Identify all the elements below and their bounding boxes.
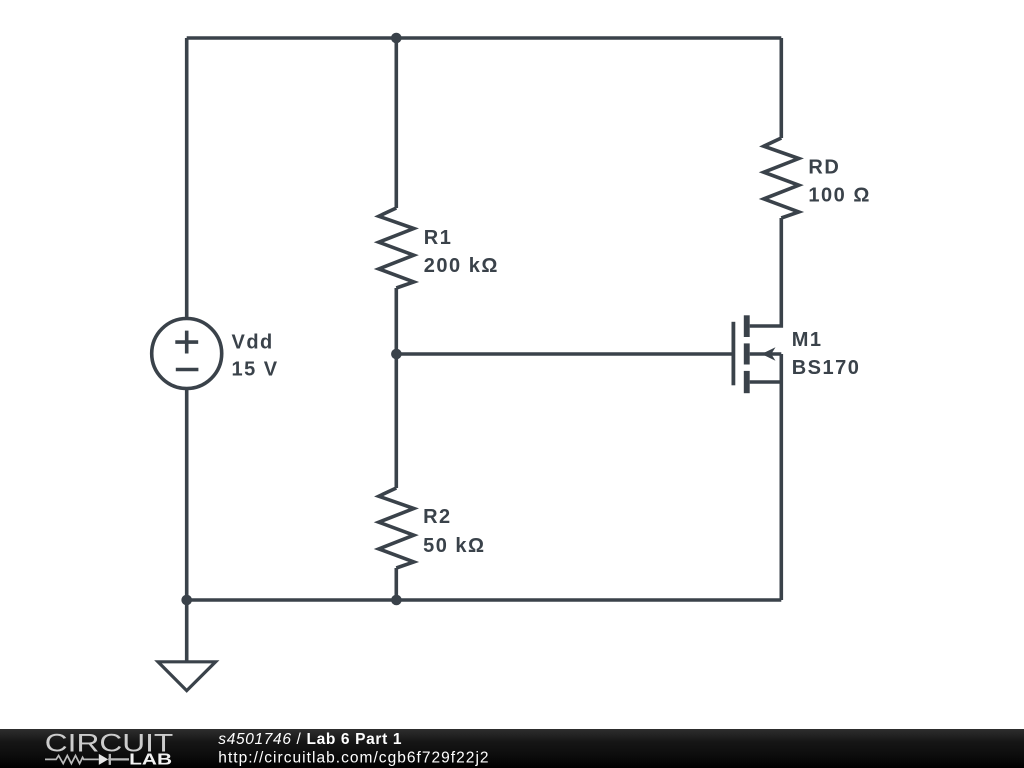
svg-text:Vdd: Vdd bbox=[232, 331, 274, 353]
svg-text:RD: RD bbox=[808, 157, 840, 179]
svg-text:200 kΩ: 200 kΩ bbox=[424, 255, 499, 277]
svg-text:R2: R2 bbox=[423, 506, 452, 528]
transistor M1 channel bar middle (body) bbox=[744, 343, 750, 364]
transistor M1 gate bar bbox=[732, 322, 736, 386]
svg-text:s4501746 / Lab 6 Part 1: s4501746 / Lab 6 Part 1 bbox=[218, 731, 402, 748]
wire bottom rail bbox=[187, 598, 782, 602]
wire middle vertical bottom bbox=[394, 568, 398, 600]
voltage source Vdd circle bbox=[152, 319, 222, 389]
voltage source plus sign bbox=[175, 331, 198, 354]
voltage source minus sign bbox=[176, 368, 199, 372]
transistor M1 channel bar top (drain) bbox=[744, 315, 750, 337]
junction node bottom middle (R2/bottom rail) bbox=[391, 595, 402, 606]
wire left vertical lower bbox=[185, 388, 189, 600]
svg-text:BS170: BS170 bbox=[792, 357, 861, 379]
logo resistor zigzag bbox=[45, 756, 99, 764]
wire RD to drain bbox=[750, 218, 782, 326]
wire body arrow horizontal bbox=[750, 352, 782, 356]
svg-text:100 Ω: 100 Ω bbox=[808, 185, 870, 207]
wire top rail bbox=[187, 36, 782, 40]
svg-text:15 V: 15 V bbox=[232, 358, 279, 380]
wire middle vertical top bbox=[394, 38, 398, 208]
wire gate horizontal bbox=[396, 352, 733, 356]
ground stem bbox=[185, 600, 189, 662]
transistor M1 channel bar bottom (source) bbox=[744, 371, 750, 393]
wire middle vertical mid bbox=[394, 288, 398, 488]
wire source horizontal bbox=[750, 380, 782, 384]
resistor R1 bbox=[379, 208, 414, 288]
resistor R2 bbox=[379, 488, 414, 568]
svg-text:R1: R1 bbox=[424, 227, 453, 249]
footer bar bbox=[0, 729, 1024, 768]
logo diode bbox=[99, 754, 108, 765]
svg-text:http://circuitlab.com/cgb6f729: http://circuitlab.com/cgb6f729f22j2 bbox=[218, 749, 489, 766]
resistor RD bbox=[764, 138, 799, 218]
logo diode bar and wire to LAB bbox=[108, 754, 129, 765]
svg-text:M1: M1 bbox=[792, 329, 823, 351]
wire left vertical upper bbox=[185, 38, 189, 319]
wire right vertical top bbox=[779, 38, 783, 138]
svg-text:LAB: LAB bbox=[129, 752, 172, 768]
junction node top (R1/top rail) bbox=[391, 33, 402, 44]
ground triangle bbox=[158, 662, 216, 691]
wire source vertical to bottom rail bbox=[779, 354, 783, 600]
svg-text:50 kΩ: 50 kΩ bbox=[423, 535, 485, 557]
transistor M1 body arrow head bbox=[762, 347, 776, 360]
junction node bottom left (ground) bbox=[181, 595, 192, 606]
junction node gate (R1/R2/gate) bbox=[391, 349, 402, 360]
